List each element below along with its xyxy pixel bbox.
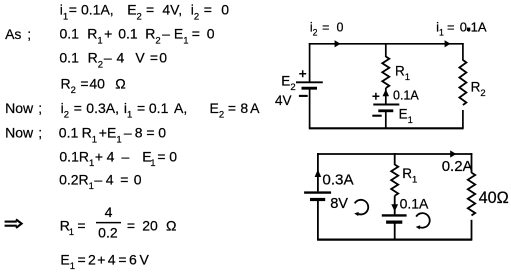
wire middle branch upper — [385, 43, 387, 57]
svg-text:0.2R1–4=0: 0.2R1–4=0 — [59, 171, 142, 192]
battery 8V positive plate — [304, 191, 331, 193]
minus sign of E1 — [372, 115, 381, 117]
svg-text:0.3A: 0.3A — [322, 171, 354, 188]
battery middle negative plate (circuit 2) — [386, 221, 402, 224]
wire left branch lower (circuit 2) — [317, 201, 319, 240]
svg-text:8V: 8V — [330, 196, 348, 212]
wire middle branch between resistor and battery (circuit 2) — [394, 196, 396, 215]
current arrow 0.1A up (top circuit) — [383, 89, 390, 96]
battery 8V negative plate — [310, 198, 325, 201]
wire bottom rail circuit 2 — [317, 239, 472, 241]
wire middle branch lower — [385, 112, 387, 129]
svg-text:R1: R1 — [402, 166, 417, 186]
svg-text:0.1R2–4V=0: 0.1R2–4V=0 — [59, 50, 167, 71]
svg-text:0.1R1+0.1R2–E1=0: 0.1R1+0.1R2–E1=0 — [60, 26, 215, 47]
svg-text:i1=0.1A: i1=0.1A — [436, 19, 487, 37]
wire right branch lower — [462, 110, 464, 128]
wire bottom rail circuit 1 — [309, 127, 464, 129]
wire top rail circuit 1 — [309, 43, 464, 45]
plus sign of E1 — [372, 93, 379, 100]
svg-text:As;: As; — [5, 26, 31, 42]
current arrow on top rail right segment — [445, 40, 451, 47]
battery middle positive plate (circuit 2) — [382, 214, 407, 216]
svg-text:4V: 4V — [275, 93, 292, 108]
svg-text:i2=0.3A,i1=0.1A,E2=8A: i2=0.3A,i1=0.1A,E2=8A — [61, 100, 261, 121]
svg-text:0.1R1+4–E1=0: 0.1R1+4–E1=0 — [59, 148, 177, 169]
current arrow 0.1A down (circuit 2) — [391, 204, 398, 211]
wire middle branch lower (circuit 2) — [394, 223, 396, 240]
resistor R2 — [459, 60, 466, 105]
current arrow on top rail circuit 2 — [450, 150, 456, 157]
loop arrow right mesh — [416, 213, 430, 229]
svg-text:R1=: R1= — [60, 217, 86, 238]
wire right branch upper (circuit 2) — [471, 153, 473, 173]
wire middle branch upper (circuit 2) — [394, 153, 396, 165]
resistor R1 (bottom circuit) — [391, 165, 398, 196]
svg-text:E2: E2 — [281, 74, 295, 94]
svg-text:=20Ω: =20Ω — [127, 217, 177, 233]
fraction bar — [96, 222, 121, 224]
wire middle branch between resistor and battery E1 — [385, 88, 387, 104]
svg-text:R2: R2 — [471, 80, 486, 100]
svg-text:i2=0: i2=0 — [310, 20, 344, 37]
plus sign of E2 — [299, 70, 306, 77]
svg-text:E1=2+4=6V: E1=2+4=6V — [60, 251, 149, 272]
minus sign of E2 — [299, 95, 308, 97]
resistor R1 (top circuit) — [382, 57, 389, 89]
svg-text:0.1R1+E1–8=0: 0.1R1+E1–8=0 — [59, 125, 167, 146]
svg-text:0.1A: 0.1A — [400, 196, 429, 212]
wire left branch upper (circuit 2) — [317, 153, 319, 191]
svg-text:0.2: 0.2 — [98, 225, 118, 241]
wire left branch lower — [309, 89, 311, 128]
battery E2 negative plate — [302, 87, 318, 90]
resistor 40 ohm — [468, 173, 475, 216]
svg-text:Now;: Now; — [5, 125, 42, 141]
battery E2 positive plate — [296, 81, 323, 83]
battery E1 positive plate — [373, 104, 399, 106]
loop arrow left mesh — [354, 200, 368, 216]
svg-text:R2=40Ω: R2=40Ω — [61, 75, 126, 96]
current arrow on top rail left segment — [335, 40, 341, 47]
current arrow 0.3A up — [315, 170, 322, 178]
svg-text:40Ω: 40Ω — [479, 189, 509, 207]
wire right branch upper — [462, 43, 464, 61]
svg-text:i1=0.1A,E2=4V,i2=0: i1=0.1A,E2=4V,i2=0 — [60, 2, 230, 23]
svg-text:Now;: Now; — [5, 100, 42, 116]
svg-text:0.1A: 0.1A — [393, 88, 419, 102]
svg-text:R1: R1 — [395, 64, 410, 84]
svg-text:0.2A: 0.2A — [442, 158, 473, 175]
wire left branch upper (to battery E2) — [309, 43, 311, 82]
battery E1 negative plate — [378, 109, 393, 112]
svg-text:4: 4 — [105, 204, 113, 220]
wire top rail circuit 2 — [317, 153, 472, 155]
bold decimal dot of 0.1A — [467, 28, 470, 32]
svg-text:E1: E1 — [399, 106, 413, 126]
wire right branch lower (circuit 2) — [471, 220, 473, 240]
implies arrow — [5, 219, 22, 228]
